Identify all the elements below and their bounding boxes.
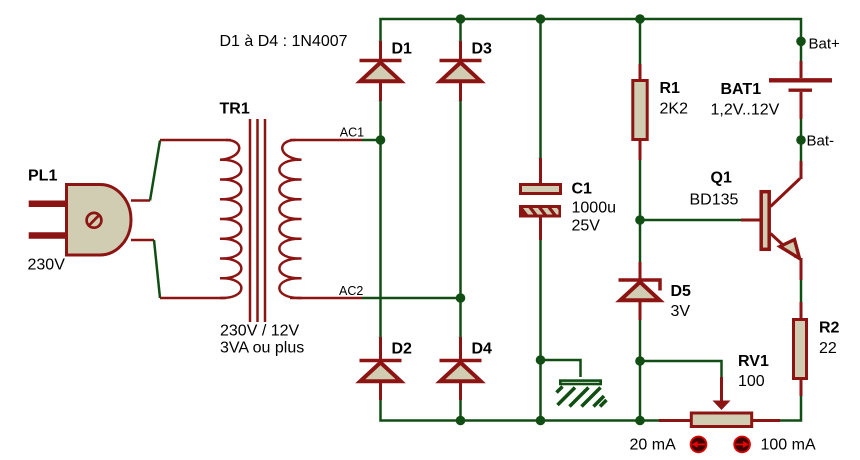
wire plug top to TR1 <box>150 141 160 201</box>
diode D2 <box>360 337 413 400</box>
wire C1 bottom to rail <box>539 240 542 421</box>
node top rail R1 <box>635 14 645 24</box>
wire AC2 link <box>362 297 461 300</box>
svg-text:C1: C1 <box>572 181 593 198</box>
node bottom rail RV1 <box>635 416 645 426</box>
svg-text:100: 100 <box>738 373 765 390</box>
node base <box>635 215 645 225</box>
wire battery bottom to collector <box>800 119 803 161</box>
svg-text:100 mA: 100 mA <box>761 437 816 454</box>
svg-text:D1 à D4 : 1N4007: D1 à D4 : 1N4007 <box>220 33 348 50</box>
resistor R1 <box>633 64 688 160</box>
diode D1 <box>360 41 413 102</box>
svg-text:Bat-: Bat- <box>807 133 835 150</box>
svg-text:BAT1: BAT1 <box>721 81 762 98</box>
wire bottom rail <box>381 400 660 421</box>
svg-text:RV1: RV1 <box>738 353 769 370</box>
svg-text:R2: R2 <box>819 320 840 337</box>
svg-text:Q1: Q1 <box>711 170 732 187</box>
wire plug bottom to TR1 <box>154 240 160 298</box>
capacitor C1 <box>519 158 616 240</box>
diode D4 <box>440 337 493 400</box>
node top rail D3 <box>456 14 466 24</box>
wire D5 bottom to rail <box>639 320 642 421</box>
svg-text:2K2: 2K2 <box>660 101 689 118</box>
svg-text:D4: D4 <box>472 341 493 358</box>
wire R1 top <box>639 19 642 64</box>
node Bat- <box>796 135 806 145</box>
RV1 increase control <box>734 437 750 453</box>
resistor R2 <box>794 302 840 396</box>
transformer TR1 <box>160 101 362 357</box>
battery BAT1 <box>711 61 833 119</box>
svg-text:3VA ou plus: 3VA ou plus <box>220 340 304 357</box>
RV1 decrease control <box>691 437 707 453</box>
svg-text:TR1: TR1 <box>220 101 250 118</box>
zener D5 <box>619 262 692 320</box>
svg-text:BD135: BD135 <box>690 192 739 209</box>
diode D3 <box>440 41 493 102</box>
wire ground tee <box>541 360 581 377</box>
wire D1 bottom to D2 top (through AC1) <box>379 101 382 337</box>
node bottom rail D4 <box>456 416 466 426</box>
svg-text:D2: D2 <box>392 341 413 358</box>
wire emitter to R2 <box>800 280 803 302</box>
wire D3 bottom to D4 top (through AC2) <box>459 101 462 337</box>
svg-text:1000u: 1000u <box>572 200 617 217</box>
svg-text:20 mA: 20 mA <box>630 437 677 454</box>
node AC1 <box>376 135 386 145</box>
wire top rail <box>381 19 802 61</box>
svg-text:R1: R1 <box>660 80 681 97</box>
ground <box>557 381 607 407</box>
svg-text:Bat+: Bat+ <box>809 36 841 53</box>
svg-text:D5: D5 <box>671 283 692 300</box>
svg-text:AC1: AC1 <box>340 126 364 140</box>
transistor Q1 <box>690 161 802 280</box>
node AC2 <box>456 293 466 303</box>
svg-text:D1: D1 <box>392 41 413 58</box>
wire D3 top <box>459 19 462 41</box>
node Bat+ <box>796 37 806 47</box>
svg-text:22: 22 <box>819 340 837 357</box>
node C1 ground <box>536 355 546 365</box>
wire R1 bottom to D5 top <box>639 160 642 262</box>
svg-text:230V / 12V: 230V / 12V <box>220 323 300 340</box>
node top rail C1 <box>536 14 546 24</box>
wire base of Q1 <box>640 219 741 222</box>
wire D4 bottom <box>459 400 462 421</box>
svg-text:D3: D3 <box>472 41 493 58</box>
wire C1 top <box>539 19 542 158</box>
svg-text:3V: 3V <box>671 303 691 320</box>
svg-text:25V: 25V <box>572 218 601 235</box>
node bottom rail C1 <box>536 416 546 426</box>
wire wiper tee <box>640 361 722 377</box>
node D5 wiper <box>635 356 645 366</box>
wire AC1 link <box>362 139 381 142</box>
wire R2 bottom to RV1 <box>780 396 801 421</box>
svg-text:1,2V..12V: 1,2V..12V <box>711 102 780 119</box>
potentiometer RV1 <box>659 353 780 427</box>
plug PL1 <box>28 168 155 274</box>
svg-text:AC2: AC2 <box>339 284 363 298</box>
svg-text:PL1: PL1 <box>28 168 57 185</box>
svg-text:230V: 230V <box>28 257 66 274</box>
